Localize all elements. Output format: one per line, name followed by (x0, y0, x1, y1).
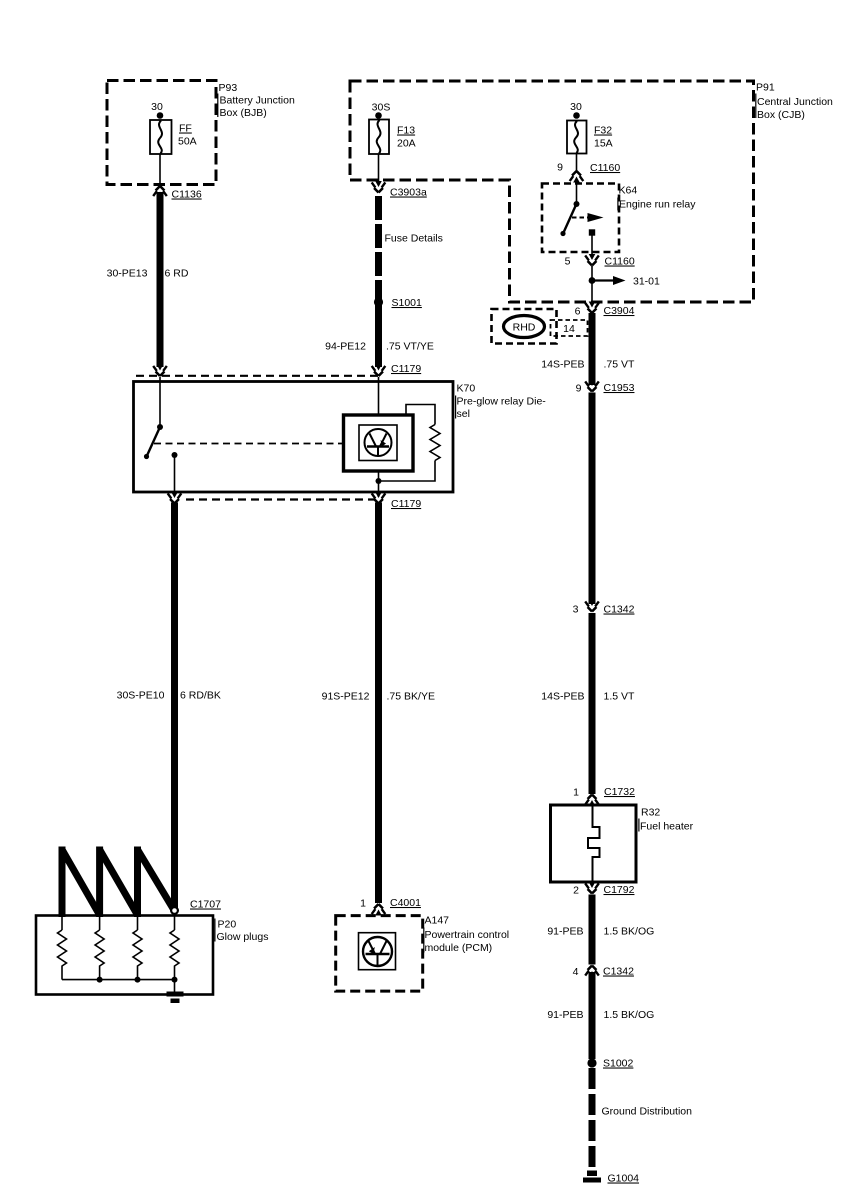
connector C1179 top left (153, 365, 167, 377)
svg-text:C1136: C1136 (172, 189, 202, 201)
glow plug resistor 1 (58, 917, 67, 980)
connector C3904 (585, 302, 599, 314)
svg-text:Glow plugs: Glow plugs (217, 931, 269, 943)
resistor K70 coil (430, 425, 440, 461)
fuse FF 50A (150, 120, 172, 154)
svg-text:5: 5 (565, 256, 571, 268)
wire switch output down (174, 457, 176, 496)
node pin 30S dot (375, 112, 382, 119)
relay output terminal square (589, 229, 595, 235)
fuse F32 15A (567, 121, 587, 154)
svg-text:1.5 BK/OG: 1.5 BK/OG (604, 926, 655, 938)
connector C1179 top middle (372, 365, 386, 377)
relay K70 Pre-glow relay Diesel box (134, 382, 454, 493)
svg-text:C1732: C1732 (604, 786, 635, 798)
node blade end (144, 454, 149, 459)
wire dashed fuse details (375, 196, 382, 301)
node bus dot 2 (97, 977, 103, 983)
svg-text:Central Junction: Central Junction (757, 96, 833, 108)
connector C4001 (372, 904, 386, 916)
glow plug resistor 2 (95, 917, 104, 980)
svg-text:30: 30 (570, 101, 582, 113)
svg-text:.75 VT/YE: .75 VT/YE (386, 341, 434, 353)
box R32 Fuel heater (551, 805, 637, 882)
svg-text:1.5 BK/OG: 1.5 BK/OG (604, 1009, 655, 1021)
wire 30-PE13 6 RD (C1136 to C1179) (157, 192, 164, 367)
svg-text:2: 2 (573, 885, 579, 897)
connector C3903a (372, 181, 386, 193)
connector C1160 pin 9 (570, 171, 584, 183)
label R32 Fuel heater (638, 807, 693, 833)
svg-text:Powertrain control: Powertrain control (425, 929, 510, 941)
svg-text:Fuel heater: Fuel heater (640, 821, 694, 833)
PCM inner square (359, 933, 396, 970)
wire 14S-PEB .75 VT (589, 313, 596, 385)
svg-text:C4001: C4001 (390, 897, 421, 909)
svg-text:FF: FF (179, 123, 192, 135)
node bus dot 3 (135, 977, 141, 983)
RHD oval (504, 316, 545, 338)
svg-text:C3904: C3904 (604, 305, 635, 317)
switch blade K64 (564, 206, 576, 232)
wire fuse FF to C1136 (159, 154, 161, 187)
svg-text:A147: A147 (425, 915, 450, 927)
label F32 15A (594, 125, 613, 150)
wire resistor bottom to node (380, 461, 435, 482)
label P20 Glow plugs (214, 919, 268, 944)
svg-text:C1707: C1707 (190, 899, 221, 911)
wire 91S-PE12 .75 BK/YE (K70 to PCM) (375, 503, 382, 904)
svg-text:F32: F32 (594, 125, 612, 137)
svg-text:6 RD: 6 RD (165, 268, 189, 280)
wire 91-PEB 1.5 BK/OG upper (589, 895, 596, 965)
svg-text:14: 14 (563, 323, 575, 335)
svg-text:4: 4 (573, 966, 579, 978)
box 14 marker (551, 320, 588, 336)
svg-text:Fuse Details: Fuse Details (385, 233, 443, 245)
glow plug resistor 3 (133, 917, 142, 980)
wire 91-PEB 1.5 BK/OG lower (589, 972, 596, 1059)
wire glow plug feed vertical 1 (59, 847, 66, 918)
node branch junction 31-01 (589, 277, 596, 284)
svg-text:15A: 15A (594, 138, 613, 150)
svg-text:RHD: RHD (513, 322, 536, 334)
svg-text:F13: F13 (397, 125, 415, 137)
node bus dot 4 (172, 977, 178, 983)
svg-text:30: 30 (151, 101, 163, 113)
relay actuating dashed arrow (572, 213, 604, 222)
label K70 (455, 383, 546, 421)
connector line C1179 bottom (186, 498, 375, 500)
svg-text:C1342: C1342 (604, 604, 635, 616)
transistor PCM driver circle (363, 937, 392, 966)
svg-text:30-PE13: 30-PE13 (107, 268, 148, 280)
wire diagonal feed 3 (138, 850, 175, 912)
svg-text:K64: K64 (619, 185, 638, 197)
svg-text:S1001: S1001 (392, 297, 423, 309)
connector C1792 (585, 882, 599, 894)
svg-text:C1792: C1792 (604, 884, 635, 896)
wire into K70 switch (159, 377, 161, 425)
wire ground bus in P20 (62, 979, 175, 981)
node switch pivot (157, 424, 163, 430)
svg-text:94-PE12: 94-PE12 (325, 341, 366, 353)
svg-text:P91: P91 (756, 82, 775, 94)
node pin 30 dot (157, 112, 164, 119)
splice S1002 (587, 1058, 596, 1067)
wire driver box to resistor (L-wire) (406, 405, 435, 425)
svg-text:9: 9 (576, 383, 582, 395)
svg-text:C1179: C1179 (391, 363, 421, 375)
wire fuse F32 to C1160 (576, 154, 578, 173)
connector C1179 bottom left (168, 492, 182, 504)
wire diagonal feed 2 (100, 850, 138, 916)
svg-text:1: 1 (573, 787, 579, 799)
connector line C1179 top (136, 375, 378, 377)
box P20 Glow plugs (36, 916, 213, 995)
fuse F13 20A (369, 120, 389, 155)
connector C1732 (585, 795, 599, 807)
wire relay output down (591, 236, 593, 259)
wire fuse F13 to C3903a (378, 154, 380, 183)
connector C1953 (585, 380, 599, 392)
wire C1179 into driver box (378, 377, 380, 415)
svg-text:C3903a: C3903a (390, 187, 427, 199)
label K64 Engine run relay (617, 185, 696, 211)
box RHD marker (492, 309, 557, 344)
connector C1179 bottom middle (372, 492, 386, 504)
svg-text:K70: K70 (457, 383, 476, 395)
ground G1004 (583, 1171, 601, 1183)
svg-text:.75 BK/YE: .75 BK/YE (387, 691, 435, 703)
connector C1342 pin 3 (585, 600, 599, 612)
dashed control line K70 (154, 443, 344, 445)
svg-text:P20: P20 (218, 919, 237, 931)
connector C1136 (153, 186, 167, 198)
ground at glow plugs (167, 980, 184, 1003)
svg-text:20A: 20A (397, 138, 416, 150)
svg-text:Box (BJB): Box (BJB) (220, 107, 267, 119)
svg-text:Ground Distribution: Ground Distribution (602, 1106, 693, 1118)
wire diagonal feed 1 (62, 850, 100, 916)
svg-text:91-PEB: 91-PEB (547, 1009, 583, 1021)
svg-text:Pre-glow relay Die-: Pre-glow relay Die- (457, 396, 547, 408)
svg-text:91-PEB: 91-PEB (547, 926, 583, 938)
connector C1160 pin 5 (585, 254, 599, 266)
svg-text:G1004: G1004 (608, 1173, 640, 1185)
svg-text:1: 1 (360, 898, 366, 910)
wire driver box bottom down (378, 471, 380, 497)
svg-text:50A: 50A (178, 136, 197, 148)
node relay blade end (560, 231, 565, 236)
wire C1160 into relay K64 (576, 179, 578, 202)
svg-text:P93: P93 (219, 82, 238, 94)
svg-text:30S-PE10: 30S-PE10 (117, 690, 165, 702)
wire C1160 pin5 to C3904 (591, 266, 593, 305)
svg-text:R32: R32 (641, 807, 660, 819)
connector C1342 pin 4 (585, 966, 599, 978)
node junction below driver (376, 478, 382, 484)
label FF 50A (178, 123, 197, 148)
svg-text:.75 VT: .75 VT (604, 359, 636, 371)
svg-text:3: 3 (573, 604, 579, 616)
svg-text:31-01: 31-01 (633, 276, 660, 288)
svg-text:Box (CJB): Box (CJB) (757, 109, 805, 121)
box P93 Battery Junction Box (BJB) (107, 81, 216, 185)
wire dashed ground distribution (589, 1068, 596, 1170)
wire branch to 31-01 (592, 276, 626, 285)
connector C1707 (eyelet) (171, 907, 178, 914)
label A147 PCM (423, 915, 509, 955)
node relay pivot (574, 201, 580, 207)
svg-text:Battery Junction: Battery Junction (220, 95, 295, 107)
relay K64 Engine run relay box (542, 184, 619, 253)
svg-text:C1160: C1160 (590, 162, 620, 174)
svg-text:C1179: C1179 (391, 498, 421, 510)
svg-text:Engine run relay: Engine run relay (619, 199, 696, 211)
heater element R32 (588, 805, 600, 882)
svg-text:14S-PEB: 14S-PEB (541, 691, 584, 703)
wire 14S-PEB 1.5 VT (C1953 to C1342) (589, 393, 596, 605)
wire 94-PE12 .75 VT/YE (375, 305, 382, 367)
label F13 20A (397, 125, 416, 150)
transistor U-driver circle (365, 429, 392, 456)
svg-text:S1002: S1002 (603, 1058, 634, 1070)
svg-text:91S-PE12: 91S-PE12 (322, 691, 370, 703)
driver box (coil driver) in K70 (344, 415, 414, 471)
node switch output terminal (172, 452, 178, 458)
node pin 30 dot right (573, 112, 580, 119)
svg-text:6: 6 (575, 306, 581, 318)
wire glow plug feed vertical 2 (96, 847, 103, 918)
wire 30S-PE10 6 RD/BK (K70 to glow plugs) (171, 503, 178, 913)
svg-text:sel: sel (457, 408, 470, 420)
svg-text:30S: 30S (372, 102, 391, 114)
label P93 (217, 82, 295, 119)
svg-text:14S-PEB: 14S-PEB (541, 359, 584, 371)
splice S1001 (374, 297, 383, 306)
label P91 (755, 82, 833, 122)
svg-text:C1953: C1953 (604, 382, 635, 394)
svg-text:6 RD/BK: 6 RD/BK (180, 690, 221, 702)
svg-text:C1342: C1342 (603, 966, 634, 978)
svg-text:C1160: C1160 (605, 256, 635, 268)
svg-text:module (PCM): module (PCM) (425, 942, 493, 954)
switch blade K70 (147, 429, 160, 457)
svg-text:9: 9 (557, 162, 563, 174)
glow plug resistor 4 (170, 914, 179, 980)
svg-text:1.5 VT: 1.5 VT (604, 691, 636, 703)
wire glow plug feed vertical 3 (134, 847, 141, 918)
wire 14S-PEB 1.5 VT lower (589, 613, 596, 794)
box P91 Central Junction Box (CJB) (350, 81, 754, 302)
driver inner square (359, 425, 397, 461)
box A147 Powertrain control module (PCM) (336, 916, 423, 992)
